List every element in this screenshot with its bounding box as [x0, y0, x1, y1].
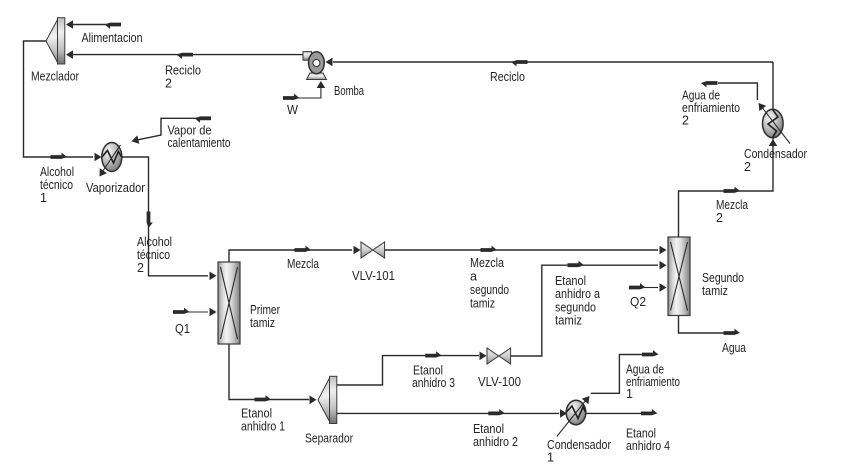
stream Etanol anhidro a segundo tamiz bold marker [568, 261, 585, 267]
stream Reciclo wire [333, 61, 773, 63]
stream Alcohol tecnico 2 inlet arrow [210, 272, 217, 281]
stream Etanol anhidro 4 bold marker [641, 409, 658, 415]
stream Q1 inlet arrow [210, 308, 217, 317]
stream Alcohol tecnico 1 inlet arrow [95, 153, 102, 162]
stream Etanol anhidro 3 wire [337, 356, 479, 385]
svg-text:Primer: Primer [250, 303, 280, 317]
stream Etanol anhidro 1 inlet arrow [310, 396, 317, 405]
svg-text:anhidro 4: anhidro 4 [626, 439, 670, 453]
stream Mezcla inlet arrow [354, 246, 361, 255]
heater Vaporizador sphere [102, 143, 122, 172]
stream Agua de enfriamiento 2 arrow [755, 100, 766, 111]
stream Mezcla wire [229, 250, 352, 262]
svg-text:Mezcla: Mezcla [470, 256, 504, 270]
stream Vapor de calentamiento wire [133, 118, 210, 141]
svg-text:técnico: técnico [137, 248, 170, 262]
stream Etanol anhidro 1 bold marker [255, 395, 272, 401]
stream Alimentacion bold marker [105, 23, 122, 29]
svg-text:Q1: Q1 [175, 322, 190, 336]
stream Agua bold marker [724, 329, 741, 335]
stream Etanol anhidro 2 inlet arrow [560, 409, 567, 418]
energy diagonal outlet arrow [96, 168, 107, 179]
svg-text:enfriamiento: enfriamiento [682, 101, 740, 115]
svg-text:Vaporizador: Vaporizador [86, 181, 145, 195]
stream Reciclo inlet arrow [326, 58, 333, 67]
svg-text:Separador: Separador [305, 432, 353, 446]
stream W wire [298, 87, 321, 98]
stream Agua de enfriamiento 1 bold marker [642, 350, 659, 356]
svg-text:a: a [470, 270, 477, 284]
svg-text:VLV-100: VLV-100 [478, 375, 521, 389]
stream Etanol anhidro a segundo tamiz wire [511, 265, 658, 356]
valve VLV-100 [487, 348, 511, 364]
stream W arrow into pump [317, 81, 326, 88]
svg-text:Alcohol: Alcohol [137, 235, 172, 249]
svg-text:anhidro 2: anhidro 2 [473, 435, 518, 449]
stream Etanol anhidro 4 wire [586, 412, 643, 414]
stream Alcohol tecnico 1 wire [24, 41, 94, 157]
stream Q1 wire [188, 311, 208, 313]
svg-text:enfriamiento: enfriamiento [626, 375, 680, 389]
svg-text:VLV-101: VLV-101 [352, 269, 395, 283]
svg-text:técnico: técnico [40, 178, 73, 192]
column Segundo tamiz [668, 237, 690, 316]
svg-text:Etanol: Etanol [473, 422, 504, 436]
svg-text:Condensador: Condensador [547, 438, 611, 452]
pump Bomba [303, 52, 327, 80]
stream Mezcla a segundo tamiz bold marker [481, 246, 498, 252]
svg-text:1: 1 [626, 387, 633, 401]
separator Separador [318, 376, 337, 423]
stream Alcohol tecnico 2 wire [122, 157, 208, 276]
svg-text:Alimentacion: Alimentacion [82, 31, 143, 45]
stream Etanol anhidro 2 wire [337, 412, 559, 414]
svg-text:Condensador: Condensador [744, 147, 807, 161]
svg-text:2: 2 [682, 114, 689, 128]
svg-text:segundo: segundo [555, 301, 596, 315]
svg-text:1: 1 [547, 451, 554, 465]
svg-text:2: 2 [137, 261, 144, 275]
svg-text:segundo: segundo [470, 283, 509, 297]
svg-text:Agua: Agua [722, 341, 746, 355]
stream Agua de enfriamiento 2 wire [718, 83, 757, 100]
cooler Condensador 1 sphere [566, 400, 586, 424]
svg-text:tamiz: tamiz [470, 297, 495, 311]
svg-text:Etanol: Etanol [555, 274, 586, 288]
stream Vapor de calentamiento bold marker [195, 116, 212, 122]
stream Q1 bold marker [173, 308, 190, 314]
svg-text:1: 1 [40, 191, 47, 205]
stream Etanol anhidro 3 inlet arrow [480, 352, 487, 361]
svg-text:Mezcla: Mezcla [287, 257, 319, 271]
stream Reciclo 2 bold marker [177, 53, 194, 59]
stream Etanol anhidro a segundo tamiz inlet arrow [660, 261, 667, 270]
stream Q2 inlet arrow [660, 283, 667, 292]
stream Alimentacion inlet arrow [66, 20, 73, 29]
svg-text:Reciclo: Reciclo [490, 70, 525, 84]
stream Q2 wire [644, 287, 658, 289]
svg-text:Reciclo: Reciclo [165, 64, 201, 78]
svg-text:Bomba: Bomba [334, 84, 364, 98]
stream Agua de enfriamiento 2 diagonal [759, 104, 790, 144]
svg-text:anhidro a: anhidro a [555, 287, 600, 301]
stream Etanol anhidro 3 bold marker [425, 351, 442, 357]
mixer Mezclador [46, 18, 65, 64]
svg-text:anhidro 3: anhidro 3 [412, 376, 455, 390]
svg-text:tamiz: tamiz [555, 314, 582, 328]
stream Mezcla 2 bold marker [724, 187, 741, 193]
stream Etanol anhidro 2 bold marker [488, 409, 505, 415]
stream Mezcla a segundo tamiz wire [385, 249, 658, 251]
column Primer tamiz [218, 262, 240, 344]
svg-text:Etanol: Etanol [241, 407, 272, 421]
stream Reciclo bold marker [511, 60, 528, 66]
stream Agua wire [679, 316, 728, 334]
stream Agua de enfriamiento 1 arrow [582, 393, 593, 404]
svg-text:W: W [287, 103, 298, 117]
svg-text:Alcohol: Alcohol [40, 165, 74, 179]
stream Q2 bold marker [629, 283, 646, 289]
stream Mezcla 2 arrow into condenser [769, 139, 778, 146]
stream Alcohol tecnico 1 bold marker [51, 153, 68, 159]
svg-text:Q2: Q2 [630, 295, 646, 309]
stream W bold marker [283, 94, 300, 100]
svg-text:tamiz: tamiz [250, 316, 275, 330]
stream Mezcla 2 wire [679, 62, 774, 237]
stream Mezcla a segundo tamiz inlet arrow [660, 246, 667, 255]
stream Reciclo 2 wire [67, 54, 304, 56]
svg-text:Mezclador: Mezclador [31, 70, 79, 84]
svg-text:2: 2 [716, 211, 723, 225]
stream Etanol anhidro 1 wire [229, 344, 309, 400]
svg-text:Mezcla: Mezcla [716, 198, 748, 212]
cooler Condensador 2 sphere [763, 109, 784, 137]
svg-text:2: 2 [165, 77, 172, 91]
stream Reciclo 2 inlet arrow [66, 50, 73, 59]
svg-text:tamiz: tamiz [702, 284, 728, 298]
stream Mezcla bold marker [295, 246, 312, 252]
svg-text:anhidro 1: anhidro 1 [241, 420, 285, 434]
energy diagonal through Vaporizador [102, 145, 121, 173]
svg-text:2: 2 [744, 160, 751, 174]
stream Vapor de calentamiento inlet arrow [131, 135, 140, 145]
stream Agua de enfriamiento 2 bold marker [701, 81, 718, 87]
stream Agua de enfriamiento 1 wire [591, 355, 646, 394]
stream Alcohol tecnico 2 bold marker [147, 212, 153, 229]
svg-text:calentamiento: calentamiento [168, 136, 231, 150]
stream Agua de enfriamiento 1 diagonal [557, 400, 587, 437]
valve VLV-101 [361, 242, 385, 258]
stream Alimentacion wire [67, 24, 120, 26]
svg-text:Segundo: Segundo [702, 271, 744, 285]
